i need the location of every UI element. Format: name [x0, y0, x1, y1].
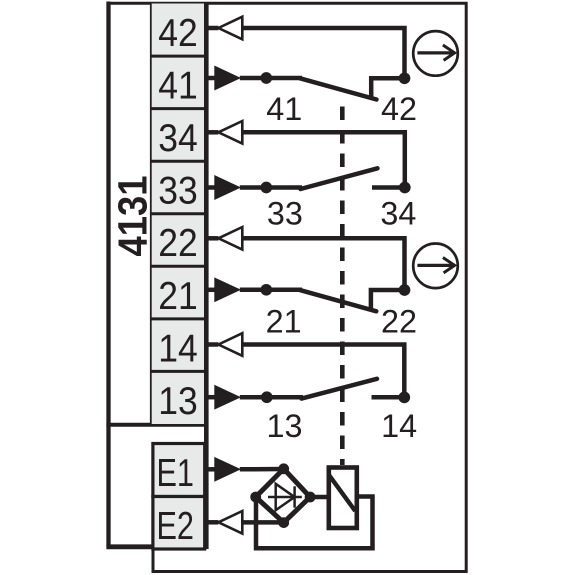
terminal 33 input arrow (filled): [206, 185, 216, 190]
node 34 junction: [399, 182, 411, 194]
svg-text:21: 21: [158, 275, 198, 318]
section divider line above E-terminals: [106, 423, 206, 427]
bridge rectifier plus horizontal bar: [268, 496, 302, 499]
terminal column right thick edge: [204, 2, 209, 549]
terminal box separator: [150, 370, 206, 373]
wire 21 to contact pivot: [240, 288, 302, 293]
svg-text:22: 22: [381, 304, 417, 340]
terminal box separator: [150, 160, 206, 163]
terminal box separator: [150, 55, 206, 58]
svg-text:E1: E1: [156, 452, 194, 495]
svg-text:E2: E2: [156, 505, 194, 548]
wire coil right side return loop: [256, 497, 373, 549]
wire 34 to contact corner: [242, 132, 404, 185]
wire E2 to rectifier bottom: [242, 520, 283, 525]
terminal 41 input arrow (filled): [206, 76, 216, 81]
terminal column left edge: [150, 4, 152, 425]
NC contact 41-42 blade: [300, 78, 377, 99]
terminal 14 output arrow (open triangle): [206, 342, 218, 347]
wire 22 to contact corner: [242, 238, 404, 287]
current direction symbol 2: [413, 243, 458, 288]
node rectifier bottom: [278, 517, 289, 528]
terminal box separator: [150, 317, 206, 320]
module left border: [106, 2, 110, 547]
NO contact 33-34 fixed terminal: [372, 185, 405, 190]
NC contact 41-42 fixed terminal L: [371, 78, 404, 96]
svg-text:21: 21: [266, 304, 302, 340]
bridge rectifier G1 diamond: [256, 469, 310, 523]
NC contact 21-22 fixed terminal L: [371, 290, 405, 308]
svg-text:34: 34: [380, 196, 416, 232]
terminal 22 output arrow (open triangle): [206, 236, 218, 241]
relay coil K1 box: [329, 468, 357, 529]
module left-column bottom edge: [106, 544, 154, 549]
NO contact 13-14 fixed terminal: [372, 395, 405, 400]
terminal 13 input arrow (filled): [206, 395, 216, 400]
svg-text:13: 13: [158, 380, 198, 423]
relay coil diagonal: [329, 475, 355, 511]
terminal box separator: [150, 212, 206, 215]
svg-text:41: 41: [158, 65, 198, 108]
current direction symbol 1: [413, 31, 458, 76]
terminal box separator: [150, 107, 206, 110]
terminal 21 input arrow (filled): [206, 288, 216, 293]
svg-text:34: 34: [158, 117, 198, 160]
wire 13 to contact pivot: [240, 395, 303, 400]
bridge rectifier cathode / plus vertical bar: [293, 486, 296, 507]
wire 42 to contact corner: [242, 28, 404, 76]
NO contact 33-34 blade: [301, 168, 378, 189]
svg-text:13: 13: [267, 408, 303, 444]
node pivot 13: [261, 391, 273, 403]
mechanical linkage dashed line: [340, 97, 345, 465]
svg-text:33: 33: [267, 196, 303, 232]
module outline (thin right/top/bottom frame): [109, 3, 467, 571]
svg-text:14: 14: [158, 327, 198, 370]
wire 33 to contact pivot: [240, 185, 302, 190]
terminal 42 output arrow (open triangle): [206, 26, 218, 31]
svg-text:42: 42: [158, 12, 198, 55]
svg-text:33: 33: [158, 170, 198, 213]
node pivot 21: [260, 284, 272, 296]
NC contact 21-22 blade: [300, 290, 376, 311]
terminal block column background: [150, 4, 206, 425]
node rectifier left: [250, 492, 261, 503]
svg-text:42: 42: [381, 91, 417, 127]
wire E1 to rectifier top: [240, 467, 284, 472]
NO contact 13-14 blade: [302, 379, 378, 399]
svg-text:4131: 4131: [109, 176, 155, 257]
terminal E1 box: [153, 444, 205, 497]
wire 14 to contact corner: [242, 345, 404, 395]
svg-text:22: 22: [158, 222, 198, 265]
wire 41 to contact pivot: [240, 76, 302, 81]
terminal E2 box: [153, 497, 205, 550]
node rectifier top: [278, 463, 289, 474]
node 22 junction: [399, 284, 411, 296]
terminal E2 output arrow (open triangle): [206, 520, 218, 525]
terminal box separator: [150, 265, 206, 268]
node pivot 41: [260, 72, 272, 84]
bridge rectifier diode triangle: [276, 484, 295, 510]
node pivot 33: [260, 182, 272, 194]
terminal 34 output arrow (open triangle): [206, 130, 218, 135]
terminal E1 input arrow (filled): [206, 467, 216, 472]
wire rectifier right to coil: [310, 495, 326, 500]
svg-text:14: 14: [381, 408, 417, 444]
node rectifier right: [305, 492, 316, 503]
node 42 junction: [399, 72, 411, 84]
svg-text:41: 41: [266, 91, 302, 127]
node 14 junction: [398, 392, 410, 404]
